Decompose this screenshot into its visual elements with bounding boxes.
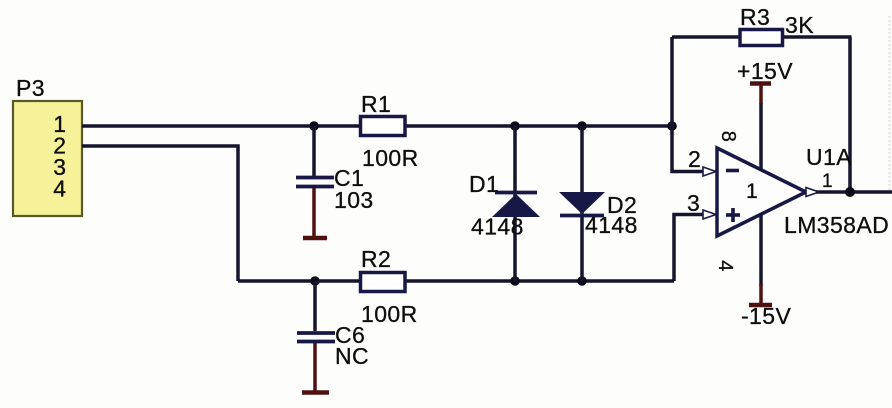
svg-text:NC: NC	[335, 343, 369, 369]
svg-text:R1: R1	[361, 91, 391, 117]
ground bar below C1	[303, 236, 327, 241]
node junction D1 bottom	[510, 276, 520, 286]
svg-text:+15V: +15V	[737, 58, 793, 84]
wire feedback left vertical	[670, 37, 674, 126]
wire output	[816, 190, 892, 194]
resistor R1	[361, 91, 406, 136]
resistor R2	[361, 246, 406, 292]
ground bar below C6	[302, 390, 329, 395]
output arrowhead	[806, 188, 819, 197]
svg-text:P3: P3	[16, 75, 45, 101]
svg-text:R3: R3	[740, 4, 770, 30]
wire C1 lower stub	[312, 188, 316, 237]
wire feedback top left segment	[672, 35, 739, 39]
wire op-amp non-inverting input branch	[674, 215, 704, 282]
svg-text:-15V: -15V	[741, 303, 791, 329]
svg-text:8: 8	[717, 131, 739, 143]
wire bottom rail	[238, 279, 674, 283]
node junction feedback tap	[667, 121, 677, 131]
pin 3 arrowhead	[703, 210, 716, 219]
wire C1 upper stub	[312, 126, 316, 176]
resistor R3	[740, 4, 783, 46]
svg-text:R2: R2	[361, 246, 391, 272]
node junction output/feedback	[845, 187, 855, 197]
wire C6 upper stub	[313, 281, 317, 331]
pin 8 label (rotated)	[717, 131, 739, 143]
svg-text:1: 1	[822, 171, 833, 192]
wire op-amp inverting input branch	[672, 126, 704, 172]
diode D2	[559, 126, 637, 281]
diode D1	[469, 126, 540, 281]
node junction D2 bottom	[577, 276, 587, 286]
power +15V stub	[759, 84, 763, 104]
wire faint screen edge	[889, 16, 891, 190]
wire feedback top right segment	[784, 35, 852, 39]
svg-text:D1: D1	[469, 171, 499, 197]
pin 4 label (rotated)	[714, 260, 736, 272]
wire C6 lower stub	[313, 343, 317, 391]
svg-text:1: 1	[746, 180, 758, 203]
wire top rail from P3 pin1 to feedback junction	[82, 124, 672, 128]
wire from P3 pin2	[82, 144, 240, 148]
node junction D2 top	[577, 121, 587, 131]
svg-text:3: 3	[687, 190, 700, 216]
capacitor C6	[297, 322, 365, 348]
capacitor C1	[296, 165, 364, 191]
svg-text:3K: 3K	[785, 12, 814, 38]
svg-text:2: 2	[688, 146, 701, 172]
svg-text:4: 4	[53, 176, 66, 202]
wire feedback right vertical	[848, 37, 852, 192]
node junction D1 top	[510, 121, 520, 131]
svg-text:4: 4	[714, 260, 736, 272]
node junction top of C6	[310, 276, 320, 286]
wire pin 4 power stub	[759, 214, 763, 286]
wire pin 8 power stub	[759, 103, 763, 170]
power -15V	[741, 303, 791, 329]
svg-text:4148: 4148	[585, 212, 638, 238]
power +15V	[737, 58, 793, 84]
node junction top of C1	[309, 121, 319, 131]
svg-text:100R: 100R	[362, 145, 419, 171]
pin 2 arrowhead	[703, 167, 716, 176]
svg-text:4148: 4148	[471, 214, 524, 240]
svg-text:103: 103	[334, 187, 374, 213]
op-amp U1A	[717, 148, 806, 236]
svg-text:U1A: U1A	[806, 144, 852, 170]
svg-text:LM358AD: LM358AD	[784, 212, 889, 238]
svg-text:100R: 100R	[361, 301, 418, 327]
connector P3	[13, 75, 82, 216]
power -15V stub	[759, 284, 763, 304]
wire vertical drop to bottom rail	[236, 145, 240, 282]
